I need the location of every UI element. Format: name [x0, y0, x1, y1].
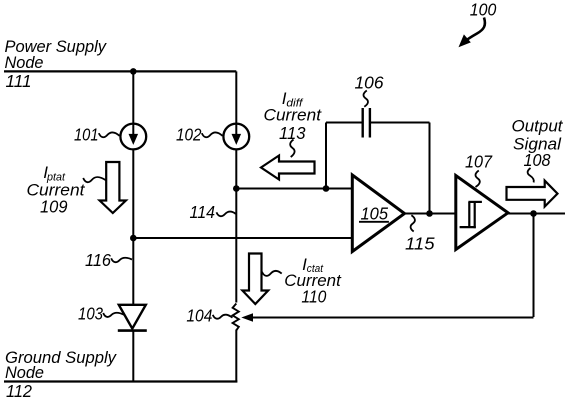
wire op-amp bottom input from node 116 [133, 237, 352, 239]
svg-text:Node: Node [5, 364, 44, 382]
svg-text:114: 114 [190, 202, 216, 222]
svg-text:111: 111 [6, 71, 32, 91]
wire from rail down to current source 101 [132, 71, 134, 124]
leader squiggle 114 [217, 212, 236, 217]
svg-text:106: 106 [355, 73, 384, 93]
arrowhead pointing at resistor 104 [241, 313, 253, 321]
block arrow Ictat current downward [242, 254, 268, 305]
svg-text:108: 108 [524, 150, 551, 170]
current source 101 [120, 124, 146, 150]
svg-text:Output: Output [512, 118, 564, 136]
leader arrow for 100 [459, 18, 485, 48]
wire output feedback horizontal to resistor 104 [252, 317, 534, 319]
svg-text:110: 110 [301, 287, 326, 307]
leader squiggle Iptat [83, 177, 106, 182]
leader squiggle 107 [476, 171, 480, 188]
leader squiggle 101 [99, 132, 120, 137]
op-amp U105 [352, 175, 404, 252]
label Iptat Current 109 [27, 163, 86, 217]
block arrow output signal rightward [507, 181, 558, 207]
block arrow Iptat current downward [100, 162, 126, 213]
svg-text:102: 102 [176, 125, 202, 145]
wire feedback right segment from capacitor [371, 122, 430, 124]
junction node 114 [233, 185, 240, 192]
junction op-amp output node 115 [426, 210, 433, 217]
wire diode cathode to ground rail [132, 331, 134, 382]
block arrow Idiff current leftward [261, 156, 315, 180]
wire comparator output to right edge [508, 213, 565, 215]
current source 102 [223, 124, 249, 150]
node Ground Supply Node 112 label [5, 349, 118, 400]
svg-text:109: 109 [40, 197, 68, 217]
label Output Signal 108 [512, 118, 564, 171]
wire feedback left segment to capacitor [326, 122, 362, 124]
junction feedback tap on input line [323, 185, 330, 192]
svg-text:116: 116 [85, 250, 111, 270]
label Ictat Current 110 [284, 255, 342, 307]
junction output node [530, 210, 537, 217]
svg-text:Current: Current [264, 107, 323, 125]
leader squiggle 116 [111, 258, 132, 263]
svg-text:Node: Node [5, 54, 44, 72]
svg-text:105: 105 [361, 203, 389, 223]
diode D103 [118, 305, 147, 331]
wire current source 101 down to diode 103 [132, 149, 134, 304]
capacitor C106 [363, 108, 370, 138]
svg-text:104: 104 [186, 306, 212, 326]
svg-text:112: 112 [6, 381, 32, 400]
leader squiggle 108 [528, 168, 534, 182]
leader squiggle 103 [103, 313, 124, 317]
wire feedback left vertical down to input line [325, 123, 327, 189]
label Idiff Current 113 [264, 89, 323, 143]
resistor R104 [233, 304, 239, 331]
wire output feedback vertical [533, 214, 535, 318]
junction node 116 [130, 235, 137, 242]
leader squiggle Ictat [262, 271, 282, 276]
svg-text:107: 107 [465, 152, 493, 172]
svg-text:100: 100 [470, 0, 497, 20]
leader squiggle 104 [213, 315, 233, 319]
leader squiggle 115 [411, 215, 415, 231]
leader squiggle 113 [290, 140, 294, 158]
comparator U107 [456, 176, 508, 250]
wire op-amp top input from node 114 [236, 188, 352, 190]
wire from rail down to current source 102 [235, 71, 237, 124]
node Power Supply Node 111 label [5, 38, 108, 91]
junction on power rail at x=133 [130, 68, 137, 75]
wire feedback right vertical down to op-amp output [429, 123, 431, 214]
wire op-amp output to comparator [405, 213, 456, 215]
svg-text:115: 115 [405, 234, 435, 254]
wire resistor to ground rail [235, 330, 237, 382]
wire power supply rail [4, 70, 236, 72]
svg-text:101: 101 [74, 125, 99, 145]
svg-text:103: 103 [78, 304, 103, 324]
hysteresis symbol inside comparator [460, 202, 482, 228]
leader squiggle 102 [202, 132, 223, 137]
leader squiggle 106 [364, 91, 368, 107]
wire ground supply rail [4, 380, 237, 382]
wire current source 102 down to resistor 104 [235, 149, 237, 302]
